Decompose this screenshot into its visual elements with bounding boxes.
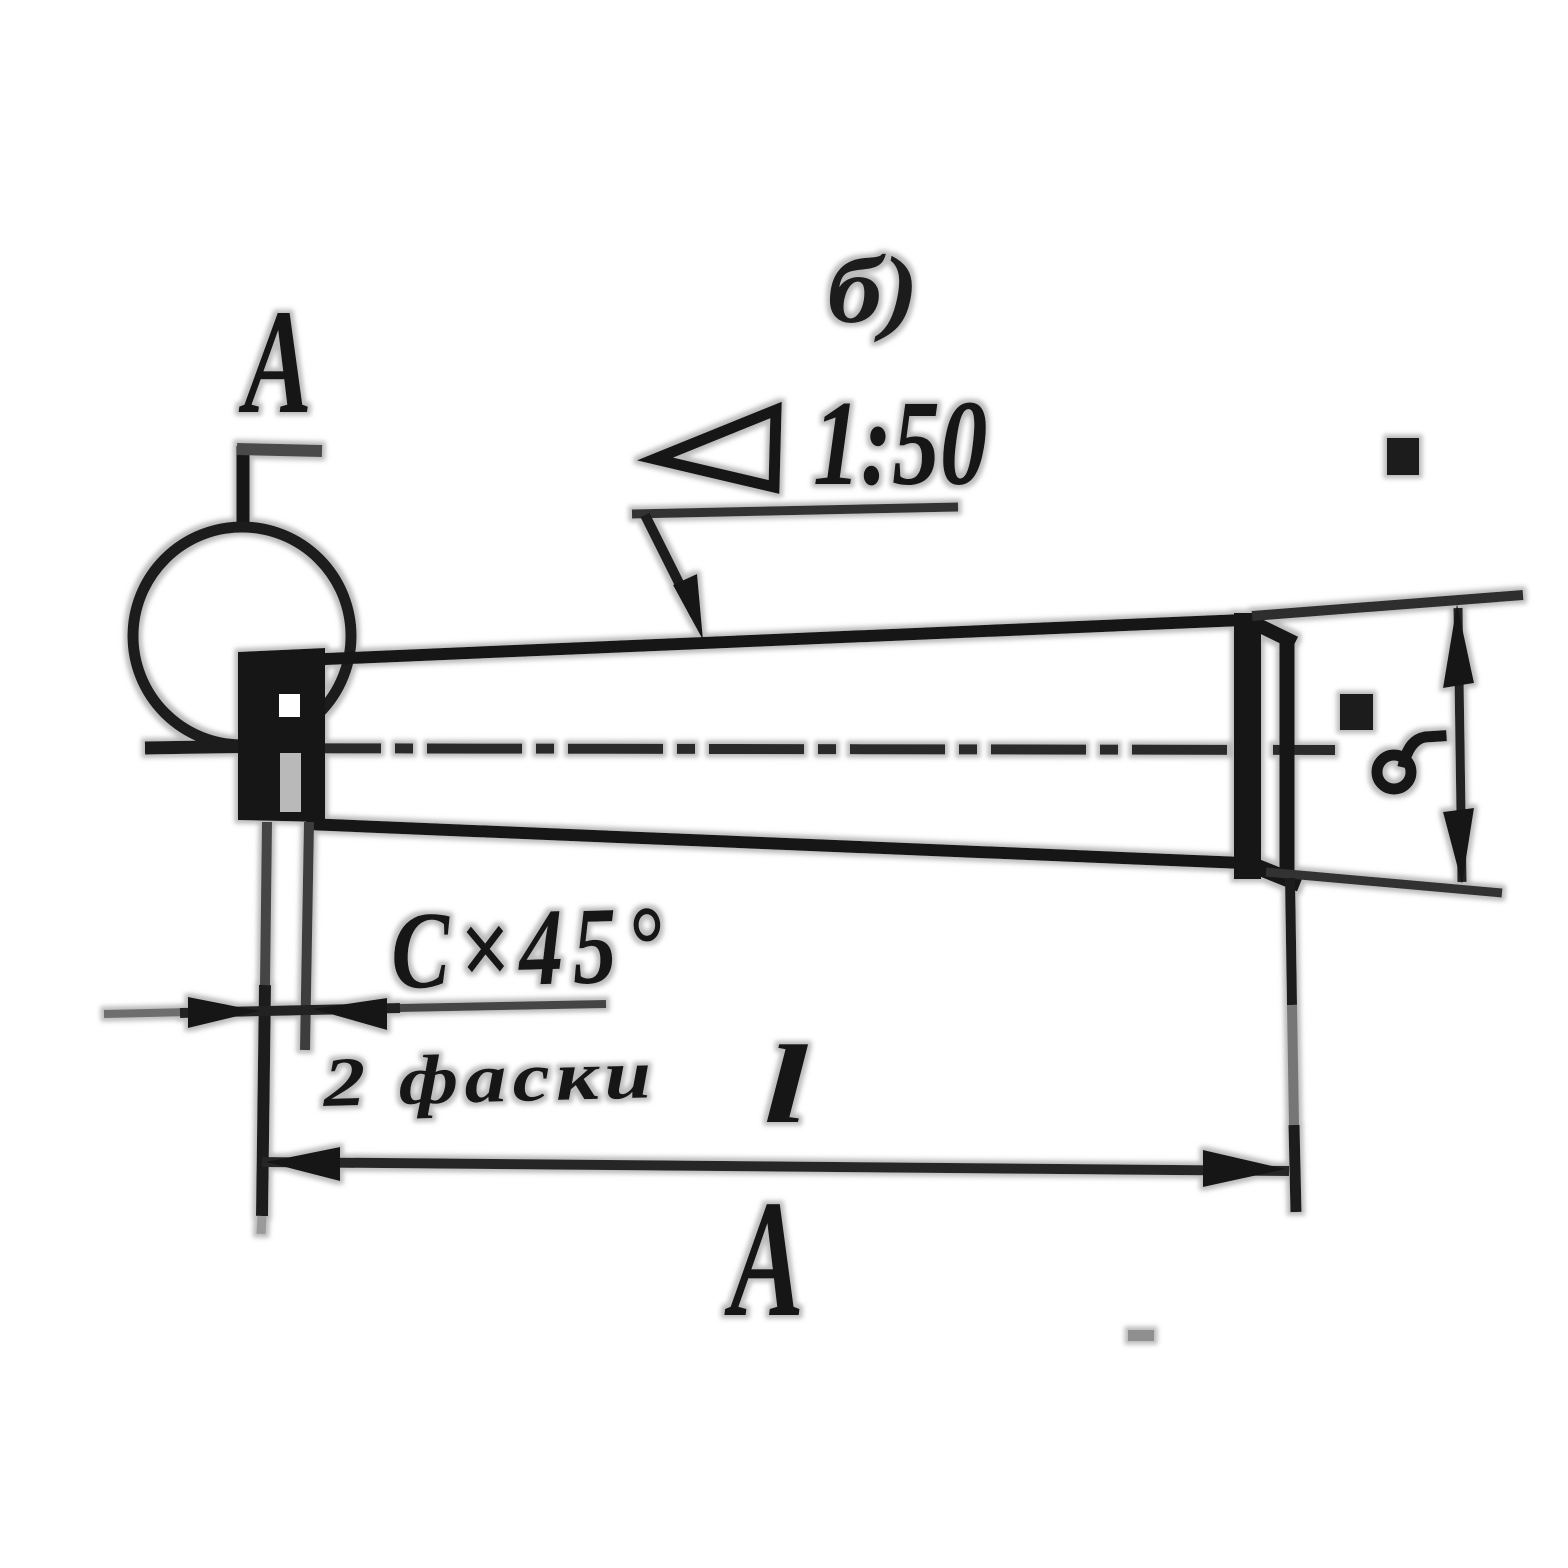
svg-text:б): б) xyxy=(827,238,919,343)
section letter A (top) xyxy=(238,279,312,445)
extension line bottom right xyxy=(1266,872,1502,893)
diameter d dimension line xyxy=(1443,604,1474,884)
chamfer text 2 faski xyxy=(321,1035,658,1122)
extension line top right xyxy=(1252,595,1523,616)
pin right chamfer line xyxy=(1252,622,1300,884)
cutting plane line A xyxy=(237,446,322,531)
pin bottom edge xyxy=(306,824,1243,863)
pin right end face xyxy=(1234,613,1261,879)
centerline (axis, dash-dot) xyxy=(145,746,1335,750)
extension line for chamfer width xyxy=(305,822,309,1050)
diameter label d xyxy=(1377,736,1441,789)
length dimension line L xyxy=(262,1147,1289,1187)
svg-text:1:50: 1:50 xyxy=(813,376,987,511)
svg-text:A: A xyxy=(724,1165,804,1351)
taper leader line xyxy=(645,515,703,640)
chamfer dimension line C xyxy=(104,997,606,1030)
section A-A circle xyxy=(133,527,351,745)
taper note shelf line xyxy=(632,507,958,514)
pin top edge xyxy=(303,620,1243,660)
label b) view title xyxy=(827,238,919,343)
stray scan mark xyxy=(1128,1330,1154,1341)
chamfer text C x 45 deg xyxy=(389,882,672,1012)
asterisk footnote square (top right) xyxy=(1387,438,1419,475)
length label l xyxy=(763,1023,808,1147)
taper value 1:50 xyxy=(813,376,987,511)
taper symbol triangle 1:50 xyxy=(655,410,776,487)
extension line right (from pin right end down to L dim) xyxy=(1290,878,1296,1212)
svg-text:l: l xyxy=(763,1023,808,1147)
svg-text:2 фаски: 2 фаски xyxy=(321,1035,658,1122)
pin left end with chamfer xyxy=(238,648,325,822)
svg-text:C×45°: C×45° xyxy=(389,882,672,1012)
section letter A (bottom) xyxy=(724,1165,804,1351)
asterisk of *d label xyxy=(1340,694,1373,730)
extension line left (from pin left end, down to L dim) xyxy=(261,822,267,1234)
svg-text:A: A xyxy=(238,279,312,445)
